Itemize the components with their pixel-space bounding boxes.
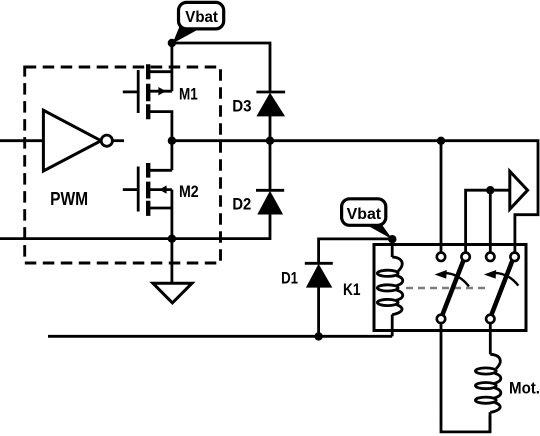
switch arrow 2: [494, 273, 518, 286]
wire: down to ground: [170, 239, 173, 284]
buffer amplifier triangle: [510, 171, 528, 209]
relay switch arm 1: [443, 261, 464, 315]
wire: mid node rail to right edge and down to relay contact 4: [172, 141, 538, 253]
transistor M2 body connection wire: [149, 188, 172, 191]
svg-text:Vbat: Vbat: [185, 9, 218, 26]
transistor M1 drain connection wire: [149, 112, 172, 141]
wire: M2 source down to bottom rail: [170, 190, 173, 239]
svg-text:K1: K1: [343, 281, 361, 299]
wire: motor coil bottom stub: [489, 412, 492, 432]
relay coil wire top: [391, 239, 394, 257]
wire: buffer input with branches: [466, 190, 510, 252]
wire: D2 cathode up to mid node: [269, 141, 272, 191]
svg-text:D2: D2: [232, 195, 251, 213]
wire: bottom return wire: [48, 335, 392, 338]
svg-text:Mot.: Mot.: [509, 378, 540, 397]
wire: mid rail down to relay contact 1: [440, 141, 443, 253]
wire: branch to relay contact 3: [489, 190, 492, 252]
relay K1 box: [374, 245, 526, 331]
PWM module dashed box: [25, 67, 221, 263]
motor coil spring: [475, 354, 500, 412]
transistor M1 source connection wire: [149, 70, 172, 73]
node dot mid at M1/M2: [168, 137, 176, 145]
wire: relay output 2 down to motor: [489, 323, 492, 354]
node dot at relay feed: [437, 137, 445, 145]
wire: inverter output stub: [112, 139, 124, 142]
diode D2 triangle: [257, 191, 283, 215]
relay contact terminals bottom: [437, 315, 495, 323]
relay contact terminals top: [437, 253, 519, 261]
transistor M2 body arrow: [159, 185, 166, 193]
node: Vbat junction dot: [168, 39, 176, 47]
diode D3 triangle: [256, 93, 285, 117]
node dot buffer input: [486, 186, 494, 194]
relay mechanical dashed link: [406, 287, 488, 290]
transistor M1 (PMOS) gate stub wire: [123, 91, 138, 94]
transistor M1 body connection wire: [149, 90, 172, 93]
wire: Vbat2 node to D1 cathode: [319, 239, 393, 263]
inverter output bubble: [101, 135, 112, 146]
wire: Vbat node to D3 cathode: [172, 43, 270, 92]
wire: bottom rail from left edge to D2 anode: [0, 214, 270, 238]
transistor M2 channel bars: [146, 163, 150, 216]
svg-text:Vbat: Vbat: [347, 206, 382, 223]
svg-text:M2: M2: [179, 183, 199, 201]
op-amp U1 inverter triangle: [43, 110, 101, 171]
relay switch arm 2: [492, 261, 513, 315]
node: Vbat2 junction dot: [388, 235, 396, 243]
node dot at ground branch: [168, 235, 176, 243]
transistor M2 source connection wire: [149, 207, 172, 210]
svg-text:M1: M1: [179, 85, 198, 103]
wire: D3 anode to mid node: [269, 116, 272, 141]
transistor M1 body arrow: [158, 87, 166, 95]
switch arrow 1: [445, 273, 469, 287]
diode D3 cathode bar: [256, 91, 285, 94]
wire: relay output 1 down and across: [441, 323, 490, 432]
ground symbol: [153, 283, 192, 303]
transistor M1 gate line: [137, 70, 140, 113]
wire: M1 source up to Vbat node: [170, 43, 173, 91]
transistor M2 (NMOS) gate stub wire: [123, 188, 138, 191]
diode D1 triangle: [306, 264, 332, 288]
svg-text:D3: D3: [232, 98, 251, 116]
relay coil spring: [377, 257, 402, 315]
transistor M2 gate line: [137, 167, 140, 212]
node dot D1 anode: [314, 332, 322, 340]
transistor M2 drain connection wire: [149, 169, 172, 172]
svg-text:D1: D1: [281, 269, 298, 287]
transistor M1 channel bars: [146, 64, 150, 119]
Vbat callout 1: [173, 2, 224, 43]
wire: M2 drain up to mid node: [170, 141, 173, 171]
wire: D1 anode down to bottom wire: [317, 288, 320, 337]
wire: inverter input from left edge: [0, 139, 43, 142]
svg-text:PWM: PWM: [50, 189, 88, 209]
node dot at D3/D2: [266, 137, 274, 145]
diode D2 cathode bar: [256, 189, 284, 192]
Vbat callout 2: [342, 199, 393, 240]
diode D1 cathode bar: [305, 262, 333, 265]
relay coil wire bottom: [391, 315, 394, 337]
